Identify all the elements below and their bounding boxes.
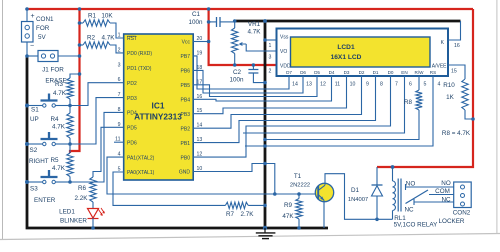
page border <box>2 0 4 240</box>
svg-text:100n: 100n <box>229 77 244 84</box>
svg-text:CON2: CON2 <box>453 210 471 217</box>
connector CON1 <box>22 22 34 43</box>
svg-text:8: 8 <box>118 107 121 113</box>
svg-text:PD5: PD5 <box>127 126 137 132</box>
wire LCD EN <box>243 76 405 133</box>
svg-text:C2: C2 <box>233 69 242 76</box>
svg-text:4: 4 <box>438 82 441 88</box>
wire PB0-D0 <box>193 76 390 157</box>
wire +5V right rail to relay <box>377 9 473 167</box>
LED LED1 <box>92 202 94 208</box>
svg-text:D2: D2 <box>359 70 365 75</box>
wire ground center bus <box>264 21 267 228</box>
svg-text:RS: RS <box>430 70 436 75</box>
svg-text:D0: D0 <box>388 70 394 75</box>
wire PB3-D3 <box>193 76 346 114</box>
svg-text:2: 2 <box>269 69 272 75</box>
svg-text:10K: 10K <box>101 13 113 20</box>
svg-text:2: 2 <box>118 47 121 53</box>
svg-text:VR1: VR1 <box>248 21 261 28</box>
svg-text:14: 14 <box>292 82 298 88</box>
svg-text:2.2K: 2.2K <box>75 195 89 202</box>
svg-text:C1: C1 <box>192 11 201 18</box>
IC U1 ATTINY2313 <box>124 34 194 180</box>
svg-text:R8: R8 <box>404 99 413 106</box>
svg-text:PB2: PB2 <box>181 126 191 132</box>
svg-text:16X1 LCD: 16X1 LCD <box>331 54 362 61</box>
svg-text:VO: VO <box>280 49 287 55</box>
switch S1 <box>43 104 46 107</box>
node S1 <box>68 104 72 108</box>
svg-text:8: 8 <box>380 82 383 88</box>
svg-text:UP: UP <box>30 116 39 123</box>
svg-text:R2: R2 <box>87 35 96 42</box>
svg-text:RST: RST <box>127 36 137 42</box>
svg-text:PB7: PB7 <box>181 54 191 60</box>
capacitor C1 <box>209 21 216 23</box>
wire IC pin10 to T1 base line <box>193 164 315 195</box>
resistor R2 <box>83 42 110 48</box>
svg-text:NC: NC <box>404 207 414 214</box>
svg-text:VDD: VDD <box>280 64 291 70</box>
wire +5V left rail <box>70 9 80 153</box>
transistor T1 2N2222 <box>315 183 333 201</box>
svg-text:LED1: LED1 <box>59 209 75 216</box>
svg-text:47K: 47K <box>282 213 294 220</box>
resistor R4 <box>69 106 71 114</box>
wire ground left rail <box>27 56 328 228</box>
node S2 <box>68 142 72 146</box>
svg-text:PD1 (TXD): PD1 (TXD) <box>127 66 152 72</box>
svg-text:15: 15 <box>451 69 457 75</box>
svg-text:Vcc: Vcc <box>182 40 191 46</box>
svg-text:PD0 (RXD): PD0 (RXD) <box>127 51 152 57</box>
wire J1 right <box>58 55 80 57</box>
resistor R5 <box>69 144 71 153</box>
wire S3 to PD4 <box>70 112 124 182</box>
svg-text:PA1(XTAL2): PA1(XTAL2) <box>127 155 155 161</box>
svg-text:FOR: FOR <box>36 25 50 32</box>
svg-text:2N2222: 2N2222 <box>290 183 310 189</box>
svg-text:9: 9 <box>118 122 121 128</box>
wire R1 to RST pin 1 <box>110 23 124 38</box>
svg-text:6: 6 <box>409 82 412 88</box>
svg-text:R3: R3 <box>55 81 64 88</box>
svg-text:3: 3 <box>118 62 121 68</box>
wire PB7-D7 <box>193 56 289 89</box>
svg-text:PB6: PB6 <box>181 69 191 75</box>
svg-text:D4: D4 <box>329 70 335 75</box>
capacitor C2 <box>252 63 256 67</box>
jumper J1 <box>38 51 58 62</box>
resistor R7 <box>225 202 248 208</box>
resistor R8 <box>418 76 420 90</box>
wire VR1 wiper to LCD VO <box>246 44 276 51</box>
svg-text:PD6: PD6 <box>127 140 137 146</box>
resistor R6 <box>93 127 124 177</box>
svg-text:PB4: PB4 <box>181 98 191 104</box>
svg-text:5V,1CO RELAY: 5V,1CO RELAY <box>394 222 439 229</box>
svg-text:1: 1 <box>269 43 272 49</box>
svg-text:5V: 5V <box>38 34 47 41</box>
svg-text:S1: S1 <box>31 107 39 114</box>
svg-text:R/W: R/W <box>415 70 425 75</box>
wire T1 emitter to ground <box>323 200 325 228</box>
svg-text:NO: NO <box>441 180 451 187</box>
svg-text:J1 FOR: J1 FOR <box>42 67 64 74</box>
wire PB1-D1 <box>193 76 375 143</box>
wire PA0 to R7 <box>113 172 225 205</box>
svg-text:13: 13 <box>306 82 312 88</box>
resistor R10 <box>462 79 468 110</box>
wire PB4-D4 <box>193 76 331 101</box>
svg-text:9: 9 <box>366 82 369 88</box>
wire PA1 to base line <box>107 157 275 194</box>
wire PB5-D5 <box>193 76 317 97</box>
diode D1 1N4007 <box>376 167 378 185</box>
svg-text:EN: EN <box>401 70 407 75</box>
svg-text:R8 = 4.7K: R8 = 4.7K <box>442 130 471 137</box>
svg-text:12: 12 <box>320 82 326 88</box>
resistor R1 <box>83 20 110 26</box>
svg-text:S2: S2 <box>30 147 38 154</box>
svg-text:1K: 1K <box>446 94 455 101</box>
svg-text:11: 11 <box>335 82 340 88</box>
wire ground top bus <box>236 20 461 23</box>
svg-text:ENTER: ENTER <box>34 197 56 204</box>
svg-text:D6: D6 <box>300 70 306 75</box>
relay contact NO <box>405 184 407 190</box>
svg-text:R7: R7 <box>226 211 235 218</box>
LCD module LCD1 <box>277 29 449 77</box>
wire +5V top rail <box>27 8 473 10</box>
relay contact COM arm <box>406 190 429 204</box>
wire PB2-D2 <box>193 76 361 128</box>
resistor R3 <box>70 74 80 78</box>
wire T1 collector to relay bottom <box>325 174 393 220</box>
svg-text:4.7K: 4.7K <box>102 35 116 42</box>
resistor R9 <box>297 192 301 196</box>
preset VR1 <box>234 21 236 28</box>
relay RL1 core <box>398 179 401 212</box>
svg-text:D7: D7 <box>286 70 292 75</box>
wire +5V rail to IC Vcc and LCD VDD <box>209 9 277 65</box>
svg-text:5: 5 <box>424 82 427 88</box>
relay contact NC <box>413 199 415 205</box>
svg-text:S3: S3 <box>30 186 38 193</box>
svg-text:PD3: PD3 <box>127 96 137 102</box>
svg-text:PD2: PD2 <box>127 81 137 87</box>
svg-text:D1: D1 <box>351 187 360 194</box>
svg-text:4.7K: 4.7K <box>52 165 66 172</box>
svg-text:R10: R10 <box>443 82 455 89</box>
svg-text:ATTINY2313: ATTINY2313 <box>134 112 182 122</box>
svg-text:PB5: PB5 <box>181 83 191 89</box>
svg-text:16: 16 <box>454 43 460 49</box>
wire LCD RS <box>245 76 433 146</box>
svg-text:T1: T1 <box>294 173 302 180</box>
svg-text:4.7K: 4.7K <box>52 124 66 131</box>
svg-text:10: 10 <box>350 82 356 88</box>
svg-text:IC1: IC1 <box>152 101 165 111</box>
svg-text:A/VEE: A/VEE <box>432 64 447 70</box>
wire R2 to PD0 pin 2 <box>110 45 124 53</box>
svg-text:4.7K: 4.7K <box>248 29 262 36</box>
svg-text:1: 1 <box>118 33 121 39</box>
wire IC Vcc to +5V <box>193 41 208 43</box>
node C1/VR1/ground <box>233 19 237 23</box>
svg-text:RIGHT: RIGHT <box>29 158 49 165</box>
svg-text:7: 7 <box>118 92 121 98</box>
wire S2 to PD3 <box>70 98 124 144</box>
svg-text:D5: D5 <box>314 70 320 75</box>
relay RL1 coil <box>392 167 394 181</box>
svg-text:R9: R9 <box>284 202 293 209</box>
switch S2 <box>43 142 46 145</box>
svg-text:−: − <box>30 43 34 50</box>
svg-text:D3: D3 <box>344 70 350 75</box>
svg-text:PB0: PB0 <box>181 155 191 161</box>
svg-text:PD4: PD4 <box>127 111 137 117</box>
svg-text:4.7K: 4.7K <box>53 90 67 97</box>
svg-text:1N4007: 1N4007 <box>348 197 368 203</box>
svg-text:LOCKER: LOCKER <box>439 218 465 225</box>
svg-text:NC: NC <box>441 197 451 204</box>
svg-text:Vss: Vss <box>280 35 289 41</box>
svg-text:D1: D1 <box>373 70 379 75</box>
svg-text:LCD1: LCD1 <box>337 44 355 51</box>
svg-text:GND: GND <box>179 170 191 176</box>
ground symbol <box>263 226 267 230</box>
svg-text:NO: NO <box>406 181 416 188</box>
node S3 <box>68 180 72 184</box>
svg-text:6: 6 <box>118 77 121 83</box>
svg-text:PB1: PB1 <box>181 141 191 147</box>
svg-text:COM: COM <box>435 188 450 195</box>
switch S3 <box>43 180 46 183</box>
svg-text:CON1: CON1 <box>36 16 54 23</box>
svg-text:+: + <box>30 13 34 20</box>
wire R8 to ground bus <box>265 110 419 140</box>
wire J1 left <box>27 55 38 57</box>
wire PD6 stub <box>114 141 124 143</box>
wire PB6-D6 <box>193 70 303 93</box>
svg-text:7: 7 <box>395 82 398 88</box>
svg-text:R5: R5 <box>50 157 59 164</box>
svg-text:PB3: PB3 <box>181 112 191 118</box>
wire S1 to PD2 <box>70 83 124 106</box>
svg-text:R6: R6 <box>78 185 87 192</box>
svg-text:R1: R1 <box>88 13 97 20</box>
svg-text:PA0(XTAL1): PA0(XTAL1) <box>127 170 155 176</box>
svg-text:2.7K: 2.7K <box>241 211 255 218</box>
connector CON2 <box>454 182 472 208</box>
svg-text:3: 3 <box>269 55 272 61</box>
svg-text:R4: R4 <box>50 116 59 123</box>
svg-text:100n: 100n <box>188 19 203 26</box>
svg-text:BLINKER: BLINKER <box>60 218 87 225</box>
